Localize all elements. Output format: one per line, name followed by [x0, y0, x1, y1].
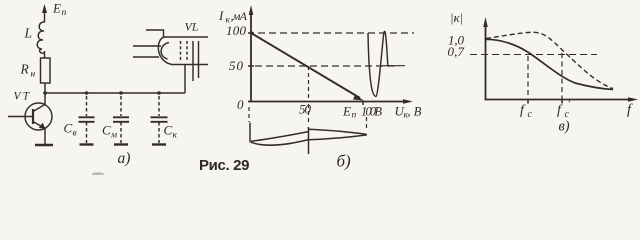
dashed level 0,7: [470, 54, 597, 56]
input wave lower left: [251, 140, 309, 146]
dashed vertical 50: [308, 66, 310, 100]
x axis: [248, 101, 407, 103]
supply arrow Eп: [44, 8, 46, 22]
input wave left edge: [249, 123, 251, 143]
tick 50: [248, 65, 254, 67]
tick 100: [248, 32, 254, 34]
wire bus: [45, 92, 185, 94]
dashed vertical 100B: [366, 117, 368, 131]
node: [119, 91, 123, 95]
svg-text:Рис. 29: Рис. 29: [199, 157, 250, 174]
input wave upper right: [308, 129, 367, 134]
solid response curve: [486, 39, 613, 89]
svg-text:50: 50: [299, 102, 312, 117]
svg-text:C: C: [164, 123, 173, 138]
svg-text:п: п: [62, 8, 67, 18]
svg-text:VT: VT: [14, 91, 31, 103]
svg-text:I: I: [218, 8, 224, 23]
tube lead mid: [133, 45, 161, 47]
ground: [152, 143, 166, 145]
scan smudge: [92, 172, 104, 175]
svg-text:C: C: [102, 123, 111, 138]
dashed vertical fc: [527, 56, 529, 99]
tube cathode: [161, 43, 169, 60]
svg-text:с: с: [528, 109, 533, 120]
tube plate: [198, 41, 200, 78]
capacitor C_K: [158, 96, 160, 116]
svg-text:к: к: [173, 131, 178, 141]
svg-text:L: L: [24, 26, 33, 41]
input wave lower right: [308, 135, 367, 140]
dashed level 100: [258, 32, 414, 34]
y axis: [485, 24, 487, 100]
capacitor C_M: [120, 96, 122, 116]
tube VL envelope: [158, 37, 208, 65]
dashed vertical below 50: [308, 104, 310, 124]
svg-text:R: R: [20, 62, 30, 77]
load line: [251, 33, 360, 98]
node: [85, 91, 89, 95]
tube lead top: [146, 30, 164, 37]
ground: [80, 143, 94, 145]
tube lead bottom: [133, 56, 159, 58]
svg-text:0,7: 0,7: [448, 44, 465, 59]
tick fc': [561, 100, 563, 104]
inductor L: [37, 22, 45, 53]
transistor VT: [25, 103, 52, 130]
svg-text:100: 100: [226, 23, 247, 38]
tick En: [362, 102, 364, 106]
svg-text:б): б): [337, 152, 352, 171]
svg-text:0: 0: [237, 97, 244, 112]
node: collector junction: [43, 91, 47, 95]
tube plate: [192, 41, 194, 81]
svg-text:C: C: [64, 121, 73, 136]
y axis: [250, 12, 252, 102]
resistor R_H: [41, 58, 51, 83]
line 50 below axis: [308, 127, 310, 154]
dashed response curve: [486, 32, 613, 88]
ground: [35, 144, 53, 146]
svg-text:н: н: [31, 70, 36, 80]
svg-text:50: 50: [229, 58, 244, 73]
svg-text:в: в: [73, 129, 77, 139]
node: [157, 91, 161, 95]
tick fc: [527, 100, 529, 104]
svg-text:100В: 100В: [361, 105, 382, 119]
svg-text:п: п: [352, 111, 357, 121]
svg-text:VL: VL: [185, 20, 199, 34]
svg-text:E: E: [52, 1, 61, 16]
dashed vertical below 0: [248, 107, 250, 122]
wire to tube: [184, 64, 186, 93]
input wave upper left: [251, 132, 309, 142]
x axis: [485, 99, 633, 101]
svg-text:E: E: [342, 104, 351, 119]
output sine: [368, 31, 388, 96]
svg-text:в): в): [559, 119, 570, 135]
capacitor C_B: [86, 96, 88, 116]
wire: [44, 51, 46, 58]
wire: [44, 83, 46, 93]
dashed vertical fc': [561, 53, 563, 99]
svg-text:, В: , В: [408, 105, 422, 119]
tube grid: [186, 41, 188, 61]
dashed level 50: [255, 65, 394, 67]
tube grid: [180, 41, 182, 61]
ground: [114, 143, 128, 145]
svg-text:а): а): [118, 150, 131, 167]
svg-text:|к|: |к|: [450, 10, 463, 25]
svg-text:м: м: [110, 131, 117, 141]
svg-text:,мА: ,мА: [231, 9, 248, 23]
